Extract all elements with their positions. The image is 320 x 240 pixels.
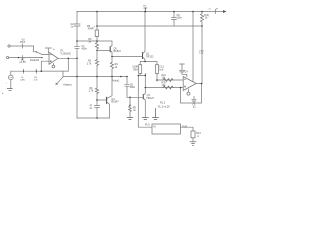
transistor Q5 xyxy=(109,47,111,52)
ground bar outC xyxy=(142,118,148,120)
transistor Q4 xyxy=(97,99,107,101)
op-amp U1 vplus bar xyxy=(45,48,51,53)
wire x112 down xyxy=(111,57,113,63)
wire B base Q5 xyxy=(97,49,110,51)
wire PU1 out xyxy=(181,127,194,131)
svg-text:1s: 1s xyxy=(53,49,56,51)
svg-text:10k: 10k xyxy=(162,84,167,87)
resistor R7b box xyxy=(163,86,173,89)
rail1 arrow xyxy=(223,10,227,13)
svg-text:TIP127: TIP127 xyxy=(146,97,154,100)
wire x138 down to PU1 xyxy=(138,75,152,127)
wire x193 xyxy=(192,12,194,84)
wire x97 top xyxy=(96,12,98,31)
svg-text:1n5: 1n5 xyxy=(159,69,164,72)
svg-text:1u: 1u xyxy=(193,106,196,109)
svg-text:BC547: BC547 xyxy=(111,101,119,104)
svg-text:m.: m. xyxy=(209,9,212,11)
resistor Rp box xyxy=(139,65,142,74)
svg-text:A: A xyxy=(197,135,199,138)
wire feedback op1 xyxy=(41,58,68,71)
resistor R13 box xyxy=(191,131,195,138)
ground R13 xyxy=(190,142,196,146)
wire input b xyxy=(145,87,183,89)
wire op2 output xyxy=(196,83,202,85)
wire bus low xyxy=(77,117,110,119)
wire source to feedback xyxy=(11,70,69,72)
wire rail1 top xyxy=(77,11,226,13)
terminal J2 xyxy=(7,57,9,59)
terminal J1 xyxy=(8,45,10,47)
svg-text:R2: R2 xyxy=(34,77,38,79)
capacitor C8 xyxy=(125,77,129,98)
op-amp U1 vminus bubble xyxy=(52,64,54,66)
wire input a xyxy=(157,79,183,81)
svg-text:F8: F8 xyxy=(143,6,146,8)
svg-text:L3.58: L3.58 xyxy=(20,61,27,64)
svg-text:R1.2: R1.2 xyxy=(160,101,166,104)
svg-text:1k: 1k xyxy=(205,17,208,20)
resistor R6 xyxy=(95,43,98,51)
series comp C4a tick xyxy=(23,69,25,73)
wire x202 down to op2 output xyxy=(201,26,203,84)
probe kalama marker xyxy=(56,77,63,85)
svg-text:1n: 1n xyxy=(71,26,74,29)
svg-text:1k: 1k xyxy=(133,109,136,112)
svg-text:PU1: PU1 xyxy=(145,124,150,127)
rail1 tick xyxy=(215,10,217,14)
svg-text:P5.8: P5.8 xyxy=(20,41,26,44)
svg-text:1u: 1u xyxy=(89,107,92,110)
resistor R10 xyxy=(200,12,203,27)
svg-text:M: M xyxy=(154,126,156,129)
svg-text:TL081/NC: TL081/NC xyxy=(60,52,71,55)
pair bottom rejoin xyxy=(138,74,145,94)
svg-text:680n: 680n xyxy=(130,86,136,89)
svg-text:b: b xyxy=(2,93,4,95)
svg-text:404R: 404R xyxy=(88,28,94,31)
svg-text:100n: 100n xyxy=(177,17,183,20)
series comp R2 tick xyxy=(35,69,37,73)
svg-text:400n: 400n xyxy=(82,48,88,51)
svg-text:1.7k: 1.7k xyxy=(89,89,94,92)
wire feedback op2 xyxy=(181,84,202,104)
pair top wire xyxy=(140,62,157,65)
switch lever xyxy=(36,52,49,55)
power flag C4 xyxy=(179,64,187,77)
svg-text:2.7k: 2.7k xyxy=(87,62,92,65)
svg-text:1u: 1u xyxy=(21,77,24,79)
resistor R4 xyxy=(110,62,113,76)
capacitor C9 xyxy=(172,12,177,27)
power flag F8 xyxy=(144,8,147,12)
op-amp U1 xyxy=(49,52,58,64)
svg-text:BC547: BC547 xyxy=(114,50,122,53)
wire step switch xyxy=(34,46,37,52)
svg-text:1.4Hz: 1.4Hz xyxy=(20,80,26,82)
wire R4 to Q4 collector xyxy=(107,77,112,99)
svg-text:C4: C4 xyxy=(185,71,189,74)
svg-text:R08: R08 xyxy=(133,69,138,72)
ground V1 xyxy=(7,89,12,91)
svg-text:2: 2 xyxy=(94,27,96,29)
ground R9 xyxy=(127,118,133,120)
svg-text:Probe1: Probe1 xyxy=(112,80,120,83)
transistor Q1 xyxy=(144,12,146,52)
op-amp U2 xyxy=(183,77,196,91)
wire step to bus xyxy=(63,71,127,76)
svg-text:4.7k: 4.7k xyxy=(34,80,39,82)
ground bar under C11 col xyxy=(156,80,158,81)
svg-text:10k: 10k xyxy=(162,77,167,80)
wire op1 output xyxy=(58,57,77,59)
wire A y41 xyxy=(77,41,112,45)
resistor Rb xyxy=(95,88,98,94)
resistor R9 xyxy=(129,97,132,117)
wire x77 column xyxy=(74,12,80,119)
svg-text:Kalama: Kalama xyxy=(64,83,73,86)
wire rail2 xyxy=(97,25,202,27)
svg-text:+: + xyxy=(6,83,8,85)
capacitor C7b xyxy=(95,106,100,119)
svg-text:1k: 1k xyxy=(115,66,118,69)
box PU1 xyxy=(152,124,181,134)
svg-text:Default3: Default3 xyxy=(30,59,40,62)
resistor R3 xyxy=(95,60,98,66)
svg-text:7.2K: 7.2K xyxy=(199,53,204,55)
capacitor C5 fb xyxy=(192,97,196,104)
wire base Q1 xyxy=(112,56,142,58)
source V1 xyxy=(10,71,12,75)
svg-text:M: M xyxy=(216,8,218,10)
svg-text:GL.2 int.2K: GL.2 int.2K xyxy=(158,105,170,108)
transistor Q3 xyxy=(142,95,144,99)
wire Q3 base xyxy=(127,96,143,98)
resistor R5 box xyxy=(95,30,98,37)
svg-text:TIP122: TIP122 xyxy=(146,56,154,59)
capacitor C11 box xyxy=(156,65,159,74)
resistor R7a box xyxy=(163,79,173,82)
op-amp U2 bubble xyxy=(187,89,189,92)
svg-text:PU8: PU8 xyxy=(182,125,187,128)
